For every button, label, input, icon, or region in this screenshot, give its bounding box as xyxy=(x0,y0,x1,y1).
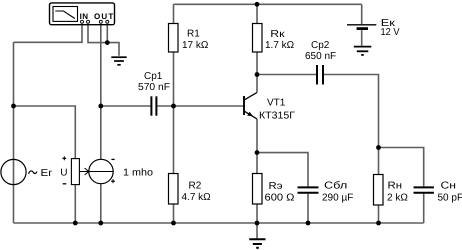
wire: ground node to bode ground xyxy=(107,43,119,56)
node: 1mho / rail junction xyxy=(98,221,103,226)
svg-text:1 mho: 1 mho xyxy=(123,168,153,179)
svg-text:IN: IN xyxy=(80,12,89,21)
wire: OUT right terminal down to ground node xyxy=(106,23,108,42)
ground (bode plotter) xyxy=(111,57,126,65)
node: Cbl / rail junction xyxy=(306,221,311,226)
wire: Re top lead xyxy=(256,153,258,174)
svg-text:17 kΩ: 17 kΩ xyxy=(182,40,209,51)
resistor Re xyxy=(253,174,263,205)
svg-text:U: U xyxy=(60,168,67,179)
node: voltmeter / rail junction xyxy=(73,221,78,226)
svg-text:OUT: OUT xyxy=(94,12,115,21)
transistor VT1 xyxy=(244,93,257,120)
wire: ground stub under Re xyxy=(256,223,258,238)
svg-text:Rн: Rн xyxy=(388,181,403,192)
svg-text:Cp1: Cp1 xyxy=(144,71,163,82)
capacitor Cp1 xyxy=(151,96,156,115)
svg-text:4.7 kΩ: 4.7 kΩ xyxy=(182,192,212,203)
wire: Cn bottom lead xyxy=(423,194,425,223)
wire: OUT left terminal down to input node xyxy=(100,23,102,106)
wire: emitter node to Cbl xyxy=(257,153,308,187)
svg-text:570 nF: 570 nF xyxy=(138,82,170,93)
svg-text:Ег: Ег xyxy=(41,168,53,179)
wire: Eg generator column xyxy=(13,42,15,223)
wire: Rk top lead xyxy=(256,4,258,23)
svg-text:1.7 kΩ: 1.7 kΩ xyxy=(265,40,295,51)
wire: Cp2 to output column xyxy=(324,75,379,148)
capacitor Cbl xyxy=(298,187,319,192)
node: input junction at 1mho column xyxy=(98,104,103,109)
transistor VT1 emitter arrow xyxy=(247,112,253,117)
wire: R1 top lead xyxy=(173,4,175,23)
node: instrument ground junction xyxy=(105,40,110,45)
ground (under Re) xyxy=(249,239,265,248)
wire: Rk bottom lead to collector node xyxy=(256,52,258,75)
svg-text:VT1: VT1 xyxy=(267,98,286,109)
svg-text:290 µF: 290 µF xyxy=(322,192,353,203)
wire: bottom ground rail xyxy=(14,222,424,224)
svg-text:2 kΩ: 2 kΩ xyxy=(387,192,408,203)
wire: Cp1 to base node and transistor base xyxy=(157,105,243,107)
generator Eg xyxy=(1,159,26,184)
wire: emitter vertical xyxy=(256,119,258,153)
voltmeter U xyxy=(71,159,79,185)
wire: battery top lead from rail xyxy=(361,4,363,24)
svg-text:Cp2: Cp2 xyxy=(311,40,330,51)
wire: voltmeter bottom lead xyxy=(74,185,76,223)
wire: R1 bottom lead to input node xyxy=(173,52,175,106)
svg-text:600 Ω: 600 Ω xyxy=(265,192,296,203)
svg-text:650 nF: 650 nF xyxy=(305,51,336,62)
wire: top supply rail xyxy=(174,3,362,5)
wire: R2 top lead xyxy=(173,106,175,174)
node: Rn / rail junction xyxy=(376,221,381,226)
bode plotter U2 box xyxy=(50,3,115,25)
bode plotter screen curve xyxy=(55,11,75,19)
node: R1/R2 base divider junction xyxy=(171,104,176,109)
node: emitter junction xyxy=(255,150,260,155)
node: output junction xyxy=(376,145,381,150)
wire: output node to Cn xyxy=(379,148,424,187)
resistor Rk xyxy=(253,24,263,53)
node: Eg / voltmeter junction xyxy=(11,104,16,109)
wire: Cbl bottom lead xyxy=(307,194,309,223)
wire: input node to Cp1 xyxy=(101,105,151,107)
battery Ek plates xyxy=(347,25,376,29)
resistor R2 xyxy=(169,174,179,205)
node: R2 / rail junction xyxy=(171,221,176,226)
svg-text:50 pF: 50 pF xyxy=(438,192,462,203)
wire: R2 bottom lead xyxy=(173,204,175,223)
wire: IN left terminal down and left xyxy=(14,23,83,42)
svg-text:R1: R1 xyxy=(187,29,200,40)
node: Re / rail junction xyxy=(255,221,260,226)
wire: node to voltmeter branch xyxy=(14,106,76,159)
wire: Re bottom lead xyxy=(256,204,258,223)
node: supply rail / Rk junction xyxy=(255,2,260,7)
capacitor Cn xyxy=(414,187,434,192)
svg-text:КТ315Г: КТ315Г xyxy=(259,111,296,122)
svg-text:Rк: Rк xyxy=(270,29,285,40)
wire: Rn bottom lead xyxy=(378,205,380,223)
wire: 1mho source top lead xyxy=(100,106,102,160)
svg-text:R2: R2 xyxy=(189,181,202,192)
controlled source 1 mho xyxy=(89,159,113,183)
wire: IN right terminal down and right to ground node xyxy=(88,23,107,42)
node: collector junction xyxy=(255,72,260,77)
capacitor Cp2 xyxy=(317,65,323,85)
wire: Rn top lead xyxy=(378,148,380,176)
ground (battery) xyxy=(354,47,372,55)
svg-text:12 V: 12 V xyxy=(381,27,400,38)
svg-text:Сбл: Сбл xyxy=(324,181,347,192)
resistor R1 xyxy=(169,24,179,53)
wire: battery to ground xyxy=(361,30,363,46)
wire: 1mho source bottom lead xyxy=(100,184,102,223)
bode plotter terminals xyxy=(81,20,109,23)
svg-text:Rэ: Rэ xyxy=(269,181,283,192)
resistor Rn xyxy=(374,175,384,206)
wire: collector node to Cp2 xyxy=(257,74,316,76)
svg-text:Сн: Сн xyxy=(441,181,457,192)
wire: collector vertical xyxy=(256,75,258,93)
